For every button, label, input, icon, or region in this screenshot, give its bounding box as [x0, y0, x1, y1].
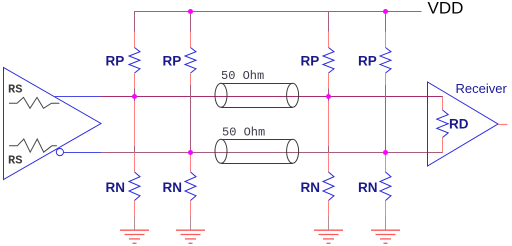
junction dot upper net col1 — [132, 94, 137, 99]
wire column4 middle segments — [385, 73, 387, 172]
ground symbol 2 — [176, 230, 205, 243]
resistor RP1 — [129, 48, 140, 74]
wire column3 top segment — [328, 12, 330, 48]
svg-text:RN: RN — [301, 180, 321, 195]
resistor RS (lower) — [9, 139, 57, 152]
ground symbol 4 — [371, 230, 400, 243]
svg-text:VDD: VDD — [428, 0, 464, 18]
svg-text:RD: RD — [449, 117, 469, 132]
transmission line TL2 — [215, 139, 299, 163]
svg-text:RN: RN — [358, 180, 378, 195]
junction dot upper net col3 — [326, 94, 331, 99]
wire column2 middle segments — [190, 73, 192, 172]
resistor RN4 — [380, 172, 391, 201]
wire column3 ground lead — [328, 201, 330, 231]
pin stub RD top — [442, 97, 444, 111]
svg-text:RP: RP — [301, 54, 320, 69]
resistor RD — [437, 110, 448, 138]
resistor RP3 — [323, 48, 334, 74]
junction dot lower net col2 — [188, 150, 193, 155]
svg-text:RS: RS — [8, 154, 22, 168]
driver buffer U1 — [4, 68, 102, 180]
pin wire upper output (blue) — [55, 96, 101, 98]
wire column2 top segment — [190, 12, 192, 48]
ground symbol 3 — [314, 230, 343, 243]
svg-text:RS: RS — [8, 83, 22, 97]
svg-text:50 Ohm: 50 Ohm — [222, 126, 265, 140]
ground symbol 1 — [120, 230, 149, 243]
junction dot rail col4 — [383, 9, 388, 14]
svg-text:RP: RP — [106, 54, 125, 69]
resistor RN3 — [323, 172, 334, 201]
svg-text:RN: RN — [106, 180, 126, 195]
junction dot lower net col4 — [383, 150, 388, 155]
wire column1 middle segments — [134, 73, 136, 172]
resistor RS (upper) — [9, 97, 59, 108]
resistor RP2 — [185, 48, 196, 74]
wire lower net — [101, 152, 443, 154]
resistor RN2 — [185, 172, 196, 201]
pin stub RD bottom — [442, 138, 444, 153]
pin wire lower output (blue) — [64, 152, 102, 154]
pin stub receiver output — [498, 124, 508, 126]
svg-text:RP: RP — [163, 54, 182, 69]
wire column1 ground lead — [134, 201, 136, 231]
wire column1 top segment — [134, 12, 136, 48]
wire column4 ground lead — [385, 201, 387, 231]
junction dot rail col2 — [188, 9, 193, 14]
wire column2 ground lead — [190, 201, 192, 231]
receiver buffer U2 — [428, 82, 499, 166]
wire VDD rail — [134, 11, 422, 13]
svg-text:RN: RN — [163, 180, 183, 195]
svg-text:50 Ohm: 50 Ohm — [221, 69, 264, 83]
inversion bubble — [56, 149, 63, 156]
resistor RN1 — [129, 172, 140, 201]
transmission line TL1 — [215, 83, 299, 107]
svg-text:Receiver: Receiver — [456, 81, 508, 96]
wire column4 top segment — [385, 12, 387, 48]
svg-text:RP: RP — [358, 54, 377, 69]
wire column3 middle segments — [328, 73, 330, 172]
wire upper net (highlighted) — [101, 96, 444, 98]
resistor RP4 — [380, 48, 391, 74]
